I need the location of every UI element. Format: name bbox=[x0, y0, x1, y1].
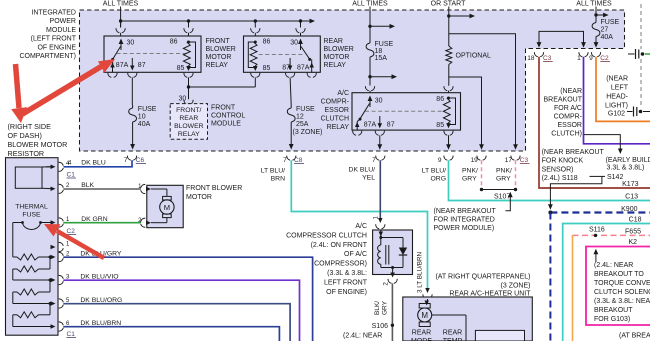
thermal fuse loop link pins 4-2 bbox=[15, 167, 42, 188]
svg-text:LEFT: LEFT bbox=[611, 85, 629, 92]
resistor R1 blower motor resistor box bbox=[6, 158, 59, 336]
svg-text:RESISTOR: RESISTOR bbox=[8, 149, 45, 158]
svg-text:17: 17 bbox=[505, 157, 513, 164]
wire DK BLU/GRY bbox=[63, 257, 312, 341]
svg-text:CLUTCH SOLENOID): CLUTCH SOLENOID) bbox=[594, 289, 650, 296]
relay linkage dashed bbox=[117, 53, 187, 55]
svg-text:(3 ZONE): (3 ZONE) bbox=[293, 129, 323, 136]
svg-text:K2: K2 bbox=[628, 239, 637, 246]
wire K900 dashed bbox=[550, 211, 650, 213]
svg-text:30: 30 bbox=[179, 96, 187, 103]
annotation red arrow to thermal fuse bbox=[44, 224, 104, 258]
wire DK BLU/YEL to compressor clutch bbox=[379, 160, 381, 220]
clutch pin 2 out bbox=[390, 273, 395, 278]
svg-text:FOR A/C: FOR A/C bbox=[554, 105, 582, 112]
svg-text:DK BLU/: DK BLU/ bbox=[349, 167, 376, 174]
svg-text:86: 86 bbox=[170, 39, 178, 46]
svg-text:(3 ZONE): (3 ZONE) bbox=[501, 283, 531, 290]
wire VIO to right edge bbox=[584, 57, 650, 144]
solenoid L1 a/c compressor clutch box bbox=[378, 218, 383, 223]
wire feed left ALL TIMES vertical bbox=[120, 7, 122, 28]
pin 30 arrow bbox=[120, 41, 122, 50]
motor M1 front blower motor box bbox=[147, 185, 183, 227]
pin 87 rear bbox=[289, 58, 291, 68]
fuse F18 symbol bbox=[369, 42, 371, 43]
pin 87A bbox=[112, 59, 114, 64]
svg-text:CLUTCH: CLUTCH bbox=[321, 116, 349, 123]
svg-text:OPTIONAL: OPTIONAL bbox=[456, 53, 492, 60]
svg-text:FUSE: FUSE bbox=[601, 19, 620, 26]
svg-text:S116: S116 bbox=[589, 227, 605, 234]
resistor pin 3 line bbox=[13, 279, 54, 281]
svg-text:COMPRESSOR CLUTCH: COMPRESSOR CLUTCH bbox=[286, 232, 367, 239]
svg-text:86: 86 bbox=[263, 39, 271, 46]
wire fuse27 to connector C2-9 bbox=[595, 40, 597, 45]
svg-text:BLK/: BLK/ bbox=[374, 301, 381, 315]
svg-text:M: M bbox=[164, 203, 170, 212]
svg-text:(AT RIGHT QUARTERPANEL): (AT RIGHT QUARTERPANEL) bbox=[435, 274, 530, 281]
annotation red arrow to right-side-of-dash text bbox=[11, 64, 27, 123]
svg-text:M: M bbox=[421, 311, 428, 320]
svg-text:G102: G102 bbox=[608, 111, 625, 118]
svg-text:RELAY: RELAY bbox=[178, 131, 200, 138]
switch blade rear bbox=[301, 47, 310, 60]
svg-text:BLOWER MOTOR: BLOWER MOTOR bbox=[8, 140, 68, 149]
svg-text:(LEFT FRONT: (LEFT FRONT bbox=[31, 36, 77, 43]
svg-text:ALL TIMES: ALL TIMES bbox=[576, 1, 612, 8]
svg-text:REAR: REAR bbox=[324, 38, 343, 45]
resistor element R3 rung bbox=[49, 280, 51, 292]
svg-text:3.3L & 3.8L): 3.3L & 3.8L) bbox=[607, 165, 645, 172]
connector C2 pin 9 bbox=[591, 52, 600, 57]
svg-text:(NEAR: (NEAR bbox=[606, 76, 628, 83]
pin 30 rear bbox=[300, 21, 302, 28]
svg-text:C2: C2 bbox=[600, 55, 609, 62]
pin 87A rear bbox=[311, 59, 313, 64]
relay A/C compressor clutch relay box bbox=[352, 93, 461, 130]
wire bus to pin30 bbox=[120, 21, 122, 28]
wire C18 teal bbox=[563, 224, 650, 341]
svg-text:BREAKOUT: BREAKOUT bbox=[594, 307, 633, 314]
svg-text:FUSE: FUSE bbox=[138, 106, 157, 113]
svg-text:POWER MODULE): POWER MODULE) bbox=[434, 225, 495, 232]
unit rear a/c-heater unit box bbox=[425, 288, 430, 293]
resistor pin 2 (BLK) bbox=[51, 187, 56, 192]
svg-text:(NEAR BREAKOUT: (NEAR BREAKOUT bbox=[434, 208, 497, 215]
svg-text:FRONT: FRONT bbox=[211, 105, 236, 112]
svg-text:BREAKOUT TO: BREAKOUT TO bbox=[594, 271, 644, 278]
svg-text:BLK: BLK bbox=[81, 182, 94, 189]
svg-text:LIGHT): LIGHT) bbox=[605, 103, 628, 110]
svg-text:7: 7 bbox=[283, 157, 287, 164]
splice S107 bbox=[482, 189, 516, 191]
svg-text:C3: C3 bbox=[543, 55, 552, 62]
svg-text:THERMAL: THERMAL bbox=[15, 204, 48, 211]
svg-text:18: 18 bbox=[527, 55, 535, 62]
wire F655 pink dashed + orange drop bbox=[573, 234, 650, 236]
svg-text:FRONT BLOWER: FRONT BLOWER bbox=[186, 185, 242, 192]
svg-text:SENSOR): SENSOR) bbox=[542, 166, 574, 173]
pin 30 ac bbox=[369, 98, 371, 107]
svg-text:BLOWER: BLOWER bbox=[174, 123, 204, 130]
svg-text:S142: S142 bbox=[607, 174, 623, 181]
connector pin 1 bbox=[579, 52, 588, 57]
svg-text:FRONT/: FRONT/ bbox=[176, 107, 201, 114]
svg-text:15A: 15A bbox=[375, 55, 388, 62]
svg-text:MOTOR: MOTOR bbox=[186, 194, 212, 201]
pin 87A ac bbox=[357, 119, 360, 121]
rear temp actuator sub-box bbox=[475, 330, 524, 341]
svg-text:HEAD-: HEAD- bbox=[606, 94, 628, 101]
svg-text:86: 86 bbox=[436, 96, 444, 103]
svg-text:87A: 87A bbox=[364, 122, 377, 129]
connector C6 pin 7 bbox=[127, 156, 136, 161]
resistor pin 1 stub (C2) bbox=[51, 245, 56, 250]
svg-text:C8: C8 bbox=[294, 157, 303, 164]
svg-text:RELAY: RELAY bbox=[206, 62, 229, 69]
clutch diode bbox=[402, 238, 404, 248]
annotation red arrow to relay 87A contact bbox=[23, 59, 116, 114]
svg-text:F655: F655 bbox=[625, 229, 641, 236]
svg-text:FOR KNOCK: FOR KNOCK bbox=[542, 158, 584, 165]
svg-text:87: 87 bbox=[282, 64, 290, 71]
svg-text:RELAY: RELAY bbox=[327, 124, 350, 131]
wire branch to connector 17 bbox=[449, 34, 516, 146]
wire feed middle vertical with branch bbox=[369, 7, 371, 43]
wire LT BLU/ORG to right edge C13 bbox=[449, 160, 650, 200]
svg-text:K900: K900 bbox=[621, 206, 637, 213]
resistor pin 4 bbox=[46, 166, 54, 168]
svg-text:DK BLU/VIO: DK BLU/VIO bbox=[80, 273, 118, 280]
wire optional resistor to AC relay pin 86 and branch to connector 19 bbox=[448, 65, 450, 86]
svg-text:BLOWER: BLOWER bbox=[324, 46, 354, 53]
svg-text:(RIGHT SIDE: (RIGHT SIDE bbox=[8, 122, 52, 131]
svg-text:YEL: YEL bbox=[362, 175, 375, 182]
svg-text:INTEGRATED: INTEGRATED bbox=[31, 10, 76, 17]
resistor OPTIONAL bbox=[446, 46, 452, 65]
pointer S118 to K900 bbox=[550, 176, 602, 205]
resistor internal rail segment A bbox=[12, 223, 14, 258]
clutch coil bbox=[380, 238, 382, 246]
svg-text:9: 9 bbox=[589, 55, 593, 62]
splice S142 link bbox=[590, 175, 606, 177]
pin 86 coil ac bbox=[448, 85, 450, 87]
svg-text:DK GRN: DK GRN bbox=[81, 216, 108, 223]
resistor element R2 rung bbox=[49, 257, 51, 269]
wire DK RED K173 bbox=[539, 57, 650, 188]
inline connector symbol top right bbox=[628, 53, 635, 55]
svg-text:PNK/: PNK/ bbox=[462, 168, 478, 175]
svg-text:7: 7 bbox=[124, 157, 128, 164]
connector pin 7 (ac relay 87) bbox=[376, 156, 385, 161]
svg-text:MOTOR: MOTOR bbox=[324, 54, 350, 61]
svg-text:ALL TIMES: ALL TIMES bbox=[103, 1, 139, 8]
svg-text:GRY: GRY bbox=[382, 300, 389, 315]
svg-text:87: 87 bbox=[387, 122, 395, 129]
svg-text:S107: S107 bbox=[494, 194, 510, 201]
svg-text:OF ENGINE): OF ENGINE) bbox=[326, 289, 367, 296]
svg-text:PNK/: PNK/ bbox=[496, 168, 512, 175]
svg-text:MOTOR: MOTOR bbox=[206, 54, 232, 61]
svg-text:OF A/C: OF A/C bbox=[344, 251, 367, 258]
svg-text:19: 19 bbox=[471, 157, 479, 164]
svg-text:S106: S106 bbox=[372, 323, 388, 330]
svg-text:REAR: REAR bbox=[179, 115, 198, 122]
svg-text:C2: C2 bbox=[67, 228, 76, 235]
svg-text:(2.4L) S118: (2.4L) S118 bbox=[542, 175, 578, 182]
svg-text:3 LT BLU/BRN: 3 LT BLU/BRN bbox=[417, 251, 424, 293]
svg-text:(AT BREAKOUT: (AT BREAKOUT bbox=[619, 333, 650, 340]
motor pin 1 bbox=[146, 187, 151, 192]
svg-text:DK BLU/ORG: DK BLU/ORG bbox=[80, 297, 122, 304]
svg-text:RELAY: RELAY bbox=[324, 62, 347, 69]
wire pin87 down to fuse10 bbox=[131, 77, 133, 105]
svg-text:COMPARTMENT): COMPARTMENT) bbox=[19, 53, 76, 60]
svg-text:FUSE: FUSE bbox=[375, 41, 394, 48]
svg-text:25A: 25A bbox=[296, 121, 309, 128]
svg-text:REAR: REAR bbox=[412, 330, 431, 337]
svg-text:85: 85 bbox=[263, 65, 271, 72]
switch blade 30 to 87A bbox=[113, 47, 121, 60]
svg-text:DK BLU: DK BLU bbox=[81, 160, 106, 167]
svg-text:30: 30 bbox=[127, 40, 135, 47]
svg-text:1: 1 bbox=[577, 55, 581, 62]
svg-text:85: 85 bbox=[436, 122, 444, 129]
wire BLK/GRY to S106 bbox=[391, 283, 393, 341]
relay rear blower motor relay box bbox=[244, 36, 321, 72]
wire PNK/GRY left bbox=[481, 160, 483, 189]
svg-text:FUSE: FUSE bbox=[22, 212, 41, 219]
connector pin 9 (ac relay 85) bbox=[444, 156, 453, 161]
wire fuse18 to AC relay pin30 with branch arrow bbox=[369, 58, 371, 86]
svg-text:COMPR-: COMPR- bbox=[321, 99, 350, 106]
svg-text:ORG: ORG bbox=[431, 176, 446, 183]
fuse F27 symbol bbox=[595, 19, 597, 23]
wire front85-rear85 join bbox=[188, 77, 190, 99]
svg-text:C6: C6 bbox=[136, 157, 145, 164]
svg-text:DK BLU/BRN: DK BLU/BRN bbox=[80, 320, 121, 327]
svg-text:30: 30 bbox=[375, 98, 383, 105]
wire OR START vertical bbox=[448, 7, 450, 47]
connector pin 19 bbox=[477, 156, 486, 161]
wire DK BLU/VIO bbox=[63, 280, 299, 341]
svg-text:OF DASH): OF DASH) bbox=[8, 131, 42, 140]
svg-text:C18: C18 bbox=[629, 217, 642, 224]
pin 87 ac bbox=[379, 116, 381, 126]
svg-text:FOR INTEGRATED: FOR INTEGRATED bbox=[434, 217, 495, 224]
svg-text:TORQUE CONVERTER: TORQUE CONVERTER bbox=[594, 280, 650, 287]
svg-text:MODULE: MODULE bbox=[46, 27, 76, 34]
wire DK GRN to front blower motor pin 2 bbox=[63, 222, 141, 224]
motor symbol front bbox=[151, 188, 167, 190]
wire K2 magenta and callout box bbox=[586, 247, 650, 326]
svg-text:CLUTCH): CLUTCH) bbox=[551, 131, 582, 138]
svg-text:CONTROL: CONTROL bbox=[211, 113, 245, 120]
wire ORG to G102 area bbox=[596, 57, 650, 122]
svg-text:C1: C1 bbox=[67, 172, 76, 179]
integrated power module U1 shaded region bbox=[80, 10, 625, 151]
connector C3 pin 17 bbox=[511, 156, 520, 161]
svg-text:LT BLU/: LT BLU/ bbox=[422, 168, 446, 175]
motor M2 rear mode bbox=[419, 304, 430, 309]
svg-text:FRONT: FRONT bbox=[206, 38, 231, 45]
inline connector symbol G102 bbox=[627, 111, 633, 113]
svg-text:ESSOR: ESSOR bbox=[324, 107, 349, 114]
fuse F10 bbox=[132, 105, 134, 108]
resistor element R1 in pin 2 line bbox=[13, 256, 17, 258]
wire right feed vertical bbox=[595, 7, 597, 20]
svg-text:87A: 87A bbox=[297, 65, 310, 72]
wire inside rear unit bbox=[432, 314, 466, 316]
svg-text:ESSOR: ESSOR bbox=[557, 122, 582, 129]
wire DK BLU from C6 to resistor pin 4 bbox=[64, 160, 133, 167]
svg-text:FOR G103): FOR G103) bbox=[594, 316, 630, 323]
svg-text:LEFT FRONT: LEFT FRONT bbox=[324, 279, 368, 286]
resistor pin 5 line bbox=[13, 303, 54, 305]
svg-text:(NEAR BREAKOUT: (NEAR BREAKOUT bbox=[542, 149, 605, 156]
relay front blower motor relay box bbox=[104, 36, 201, 72]
svg-text:BREAKOUT: BREAKOUT bbox=[543, 97, 582, 104]
svg-text:(2.4L: ON FRONT: (2.4L: ON FRONT bbox=[311, 242, 368, 249]
svg-text:C1: C1 bbox=[67, 331, 76, 338]
wire bus B+ horizontal bbox=[121, 20, 311, 22]
wire DK BLU/ORG bbox=[63, 304, 290, 341]
svg-text:(3.3L & 3.8L: NEAR: (3.3L & 3.8L: NEAR bbox=[594, 298, 650, 305]
svg-text:C13: C13 bbox=[625, 193, 638, 200]
svg-text:A/C: A/C bbox=[355, 223, 367, 230]
svg-text:C3: C3 bbox=[520, 157, 529, 164]
resistor pin 6 line bbox=[13, 326, 54, 328]
svg-text:18: 18 bbox=[375, 48, 383, 55]
resistor element R4 rung bbox=[49, 304, 51, 315]
wire BLK to front blower motor pin 1 bbox=[63, 188, 141, 190]
svg-text:10: 10 bbox=[138, 114, 146, 121]
pin 86 coil bbox=[188, 21, 190, 28]
svg-text:LT BLU/: LT BLU/ bbox=[261, 168, 285, 175]
svg-text:ALL TIMES: ALL TIMES bbox=[352, 1, 388, 8]
svg-text:87: 87 bbox=[138, 62, 146, 69]
svg-text:BRN: BRN bbox=[271, 176, 285, 183]
svg-text:(2.4L: NEAR: (2.4L: NEAR bbox=[343, 333, 382, 340]
motor pin 2 bbox=[146, 220, 151, 225]
svg-text:85: 85 bbox=[177, 65, 185, 72]
wire PNK/GRY right bbox=[515, 160, 517, 189]
svg-text:REAR: REAR bbox=[443, 330, 462, 337]
svg-text:OF ENGINE: OF ENGINE bbox=[37, 44, 76, 51]
svg-text:BLOWER: BLOWER bbox=[206, 46, 236, 53]
wire bridge to connectors 18 and 1 bbox=[539, 31, 584, 44]
svg-text:40A: 40A bbox=[138, 121, 151, 128]
svg-text:(NEAR: (NEAR bbox=[560, 88, 582, 95]
svg-text:12: 12 bbox=[296, 114, 304, 121]
svg-text:30: 30 bbox=[290, 40, 298, 47]
svg-text:POWER: POWER bbox=[50, 18, 76, 25]
svg-text:7: 7 bbox=[372, 157, 376, 164]
svg-text:(2.4L: NEAR: (2.4L: NEAR bbox=[594, 262, 633, 269]
svg-text:9: 9 bbox=[438, 157, 442, 164]
svg-text:COMPR-: COMPR- bbox=[554, 114, 583, 121]
resistor pin 1 (DK GRN) bbox=[46, 222, 54, 224]
switch blade ac bbox=[360, 104, 370, 119]
svg-text:GRY: GRY bbox=[496, 176, 511, 183]
svg-text:(EARLY BUILD: (EARLY BUILD bbox=[606, 157, 650, 164]
svg-text:A/C: A/C bbox=[337, 90, 349, 97]
fuse F12 bbox=[290, 105, 292, 108]
svg-text:40A: 40A bbox=[601, 34, 614, 41]
wire LT BLU/BRN from C8 to rear ac heater unit bbox=[291, 160, 427, 290]
connector C3 pin 18 bbox=[534, 52, 543, 57]
svg-text:(3.3L & 3.8L:: (3.3L & 3.8L: bbox=[327, 270, 367, 277]
svg-text:OR START: OR START bbox=[431, 1, 466, 8]
svg-text:MODULE: MODULE bbox=[211, 121, 241, 128]
svg-text:27: 27 bbox=[601, 27, 609, 34]
svg-text:FUSE: FUSE bbox=[296, 106, 315, 113]
svg-text:COMPRESSOR): COMPRESSOR) bbox=[314, 261, 367, 268]
svg-text:87A: 87A bbox=[116, 62, 129, 69]
svg-text:REAR A/C-HEATER UNIT: REAR A/C-HEATER UNIT bbox=[449, 290, 531, 297]
connector C8 pin 7 bbox=[287, 156, 296, 161]
svg-text:GRY: GRY bbox=[462, 176, 477, 183]
svg-text:K173: K173 bbox=[622, 181, 638, 188]
pin 87 bbox=[131, 58, 133, 68]
splice S106 bbox=[391, 324, 394, 327]
wire DK BLU/BRN bbox=[63, 327, 279, 341]
pin 86 coil rear bbox=[254, 21, 256, 28]
page edge dashed lines bbox=[640, 4, 642, 49]
